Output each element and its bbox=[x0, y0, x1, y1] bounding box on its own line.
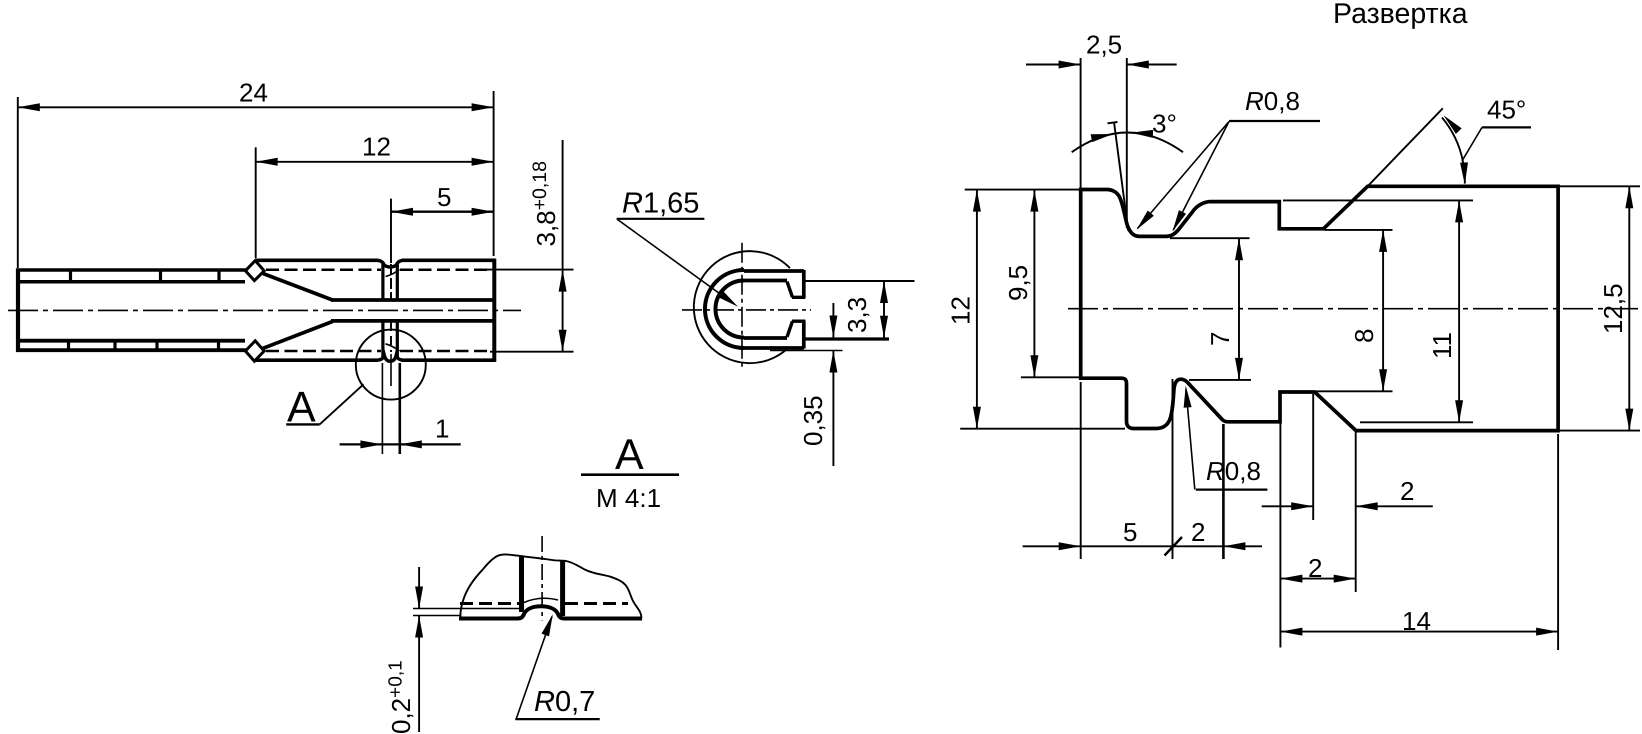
dim 2 arrow bbox=[1223, 542, 1245, 550]
detail view label A underline bbox=[581, 473, 679, 476]
45 degree arc arrows bbox=[1441, 113, 1462, 134]
dim 9,5 extension line bbox=[1021, 376, 1079, 378]
svg-text:5: 5 bbox=[437, 182, 451, 212]
svg-text:3°: 3° bbox=[1152, 109, 1177, 139]
svg-text:R0,8: R0,8 bbox=[1206, 456, 1261, 486]
dim 11 extension lines bbox=[1283, 199, 1473, 201]
detail groove left wall bbox=[519, 556, 524, 613]
svg-text:8: 8 bbox=[1349, 329, 1379, 343]
dim 3,8 extension lines bbox=[487, 269, 574, 271]
svg-text:R0,7: R0,7 bbox=[534, 686, 595, 718]
dim 12 line bbox=[256, 161, 494, 163]
detail blob break outline bbox=[460, 554, 641, 620]
svg-text:11: 11 bbox=[1427, 332, 1457, 359]
oblique slash on dim line bbox=[1165, 537, 1183, 556]
dim 3,3 arrows bbox=[880, 281, 888, 303]
dim 12 extension lines bbox=[965, 189, 1079, 191]
R0,8 top leaders bbox=[1138, 122, 1230, 231]
dim 9,5 arrows bbox=[1030, 190, 1038, 212]
svg-text:Развертка: Развертка bbox=[1333, 0, 1468, 30]
dim 0,35 lines bbox=[832, 303, 834, 466]
dim 12 line bbox=[976, 190, 978, 429]
svg-text:7: 7 bbox=[1205, 332, 1235, 346]
detail hidden dashed line bbox=[460, 602, 519, 605]
bore top line bbox=[331, 298, 495, 302]
groove hidden centre dashes bottom bbox=[390, 322, 392, 352]
R1,65 leader arrow bbox=[718, 291, 741, 310]
dim 3,3 extension lines bbox=[806, 280, 915, 282]
groove top walls bbox=[383, 263, 397, 299]
45 degree leader bbox=[1462, 127, 1482, 161]
45 degree arc bbox=[1442, 118, 1465, 184]
tube bottom wall inner line bbox=[19, 339, 245, 343]
dim 24 extension lines bbox=[17, 97, 19, 268]
inner cone top diagonal bbox=[263, 274, 333, 301]
R1,65 leader bbox=[618, 220, 735, 305]
svg-text:R1,65: R1,65 bbox=[622, 188, 699, 220]
top chamfer diamond bbox=[245, 261, 264, 281]
dim 5 and 2 line bbox=[1023, 545, 1262, 547]
dim 0,35 extension line bbox=[770, 350, 843, 352]
groove bottom walls bbox=[383, 322, 397, 357]
groove bottom notch dip with R0.7 hump bbox=[379, 355, 402, 361]
svg-text:9,5: 9,5 bbox=[1003, 265, 1033, 301]
detail inner thin curve between walls bbox=[524, 598, 558, 602]
dim 2,5 arrows bbox=[1059, 61, 1081, 69]
svg-text:1: 1 bbox=[435, 414, 449, 444]
groove top notch dip bbox=[379, 261, 402, 268]
detail A leader bbox=[320, 384, 364, 424]
top bar of C bbox=[744, 270, 804, 298]
dim 14 line bbox=[1280, 631, 1558, 633]
svg-text:2,5: 2,5 bbox=[1086, 30, 1122, 60]
dim 3,3 line bbox=[883, 281, 885, 338]
tube top wall outer line bbox=[16, 268, 247, 272]
svg-text:2: 2 bbox=[1400, 476, 1414, 506]
bottom hook bbox=[787, 321, 805, 337]
detail centreline bbox=[541, 536, 543, 621]
groove bottom inner curve bbox=[386, 344, 400, 351]
dim 12,5 arrows bbox=[1625, 186, 1633, 208]
C-ring outer arc bbox=[705, 270, 744, 348]
sleeve outer bottom line with groove notch bbox=[255, 358, 496, 362]
dim 12 extension line bbox=[255, 147, 257, 258]
dim 3,8 line bbox=[562, 140, 564, 352]
detail bottom edge with R0,7 groove hump bbox=[459, 606, 642, 618]
R0,8 bottom leader bbox=[1186, 389, 1195, 490]
svg-text:2: 2 bbox=[1308, 553, 1322, 583]
groove top inner curve bbox=[386, 270, 400, 277]
section horizontal centreline bbox=[682, 309, 811, 311]
bottom bar of C bbox=[744, 321, 804, 349]
hidden line top (small tube OD inside sleeve) bbox=[266, 269, 381, 272]
inner cone bottom diagonal bbox=[263, 322, 333, 349]
svg-text:45°: 45° bbox=[1487, 95, 1526, 125]
wire tube left end cap bbox=[16, 269, 20, 352]
svg-text:24: 24 bbox=[239, 78, 268, 108]
dim 12,5 line bbox=[1628, 186, 1630, 430]
dim 11 line bbox=[1458, 200, 1460, 422]
dim 0,35 arrows bbox=[829, 316, 837, 338]
R0,7 leader arrow bbox=[542, 613, 557, 636]
dim 2,5 line bbox=[1026, 64, 1177, 66]
dim 1 line bbox=[340, 443, 461, 445]
bore bottom line bbox=[331, 319, 495, 323]
detail groove right wall bbox=[560, 561, 565, 617]
dim 7 line bbox=[1238, 238, 1240, 380]
development outline bbox=[1081, 186, 1558, 430]
dim 0,2 lines bbox=[418, 567, 420, 732]
svg-text:A: A bbox=[287, 384, 316, 432]
dim 9,5 line bbox=[1033, 190, 1035, 378]
top hook bbox=[787, 282, 805, 298]
dim 24 arrows bbox=[472, 103, 494, 111]
3 degree slant line bbox=[1108, 122, 1129, 231]
groove depth line inside detail circle bbox=[390, 354, 392, 386]
outer thin circle arc bbox=[694, 251, 790, 363]
dim 12 arrows bbox=[973, 190, 981, 212]
development centreline bbox=[1068, 308, 1640, 310]
section vertical centreline bbox=[741, 243, 743, 369]
dim 12,5 extension lines bbox=[1560, 185, 1640, 187]
tube top wall serration ticks bbox=[71, 270, 220, 282]
sleeve outer top line with groove notch bbox=[255, 258, 496, 262]
svg-text:14: 14 bbox=[1402, 606, 1431, 636]
svg-text:3,3: 3,3 bbox=[842, 297, 872, 333]
dim 12 arrows bbox=[472, 158, 494, 166]
dim 8 arrows bbox=[1379, 230, 1387, 252]
svg-text:A: A bbox=[615, 431, 644, 479]
R0,8 bottom leader arrow bbox=[1182, 385, 1192, 408]
tube bottom wall serration ticks bbox=[69, 340, 219, 351]
svg-text:12: 12 bbox=[946, 296, 976, 325]
svg-text:12: 12 bbox=[362, 132, 391, 162]
dim 8 extension lines bbox=[1325, 229, 1393, 231]
C-ring inner arc bbox=[716, 281, 745, 338]
dim 14 extension line bbox=[1557, 434, 1559, 650]
tube bottom wall outer line bbox=[16, 348, 247, 352]
dim 2 bottom line bbox=[1280, 578, 1355, 580]
dim 0,2 arrows bbox=[415, 587, 423, 609]
dim 2 top line bbox=[1262, 505, 1433, 507]
dim 14 arrows bbox=[1280, 628, 1302, 636]
dim 8 line bbox=[1382, 230, 1384, 391]
R0,7 leader bbox=[516, 617, 552, 719]
dim 7 extension lines bbox=[1170, 237, 1250, 239]
dim 7 arrows bbox=[1235, 238, 1243, 260]
dim 2 bottom arrows bbox=[1280, 575, 1302, 583]
dim 5 extension line bbox=[390, 199, 392, 263]
dim 11 arrows bbox=[1455, 200, 1463, 222]
svg-text:0,35: 0,35 bbox=[798, 395, 828, 446]
bottom chamfer diamond bbox=[245, 341, 264, 361]
groove hidden centre dashes top bbox=[390, 264, 392, 299]
svg-text:М 4:1: М 4:1 bbox=[596, 483, 661, 513]
3 degree arc arrows bbox=[1091, 130, 1114, 142]
dim 1 extension lines bbox=[381, 363, 383, 454]
dim 24 line bbox=[18, 106, 494, 108]
dim 0,2 extension lines bbox=[413, 608, 521, 610]
dim 5 arrow bbox=[1059, 542, 1081, 550]
dim 3,8 arrows bbox=[559, 270, 567, 292]
dim 2,5 extension lines bbox=[1080, 58, 1082, 188]
svg-text:12,5: 12,5 bbox=[1598, 283, 1628, 334]
dim 2 top extension lines bbox=[1312, 394, 1314, 520]
svg-text:5: 5 bbox=[1123, 517, 1137, 547]
3 degree arc bbox=[1072, 133, 1183, 153]
dim 2 bottom extension line bbox=[1279, 394, 1281, 648]
centerline side view bbox=[8, 309, 521, 311]
dim 5 arrows bbox=[472, 208, 494, 216]
R0,8 top leader arrows bbox=[1133, 210, 1153, 232]
hidden line bottom bbox=[266, 350, 381, 353]
dim 5 and 2 extension lines bbox=[1080, 382, 1082, 559]
sleeve right end cap bbox=[492, 259, 496, 362]
dim 5 line bbox=[391, 210, 494, 212]
dim 2 top arrows bbox=[1291, 502, 1313, 510]
tube top wall inner line bbox=[19, 280, 245, 284]
svg-text:R0,8: R0,8 bbox=[1245, 86, 1300, 116]
dim 1 arrows bbox=[360, 440, 382, 448]
svg-text:2: 2 bbox=[1191, 517, 1205, 547]
45 degree thin extension bbox=[1368, 108, 1443, 186]
detail circle A bbox=[356, 330, 426, 400]
